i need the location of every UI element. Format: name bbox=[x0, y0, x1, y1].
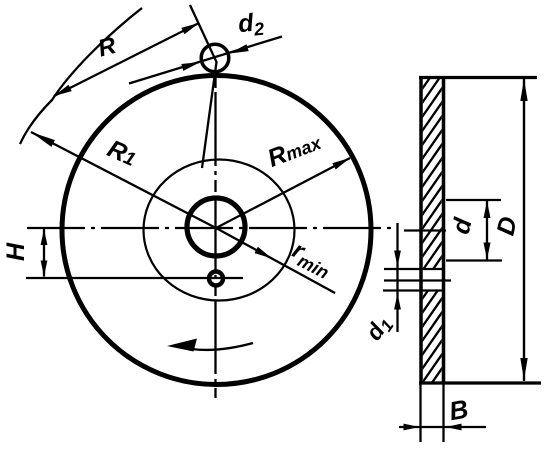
d1 dimension line bbox=[396, 223, 398, 332]
section bar right edge bbox=[442, 77, 446, 384]
R1 dimension line bbox=[31, 132, 216, 228]
section bottom edge / D bottom extension bbox=[419, 381, 541, 384]
roller circle bbox=[201, 44, 229, 72]
pin hole section line bottom bbox=[383, 289, 445, 291]
d dimension line bbox=[486, 200, 488, 261]
d2 dimension axis line bbox=[129, 37, 282, 84]
roller normal line bbox=[190, 5, 217, 168]
pin hole section centerline bbox=[384, 279, 451, 281]
section top edge / D top extension bbox=[419, 76, 537, 79]
D dimension line bbox=[523, 78, 525, 381]
disc outer circle bbox=[62, 76, 371, 385]
pin hole bbox=[209, 272, 223, 286]
rotation direction arrow bbox=[192, 343, 253, 350]
H dimension line bbox=[43, 229, 45, 277]
B extension left bbox=[419, 384, 421, 442]
svg-text:H: H bbox=[2, 242, 30, 261]
rmin dimension line bbox=[216, 228, 335, 293]
roller path arc bbox=[20, 8, 142, 144]
centerline stub at section bbox=[404, 229, 446, 231]
d2 right arrow bbox=[230, 44, 249, 53]
B extension right bbox=[442, 384, 444, 442]
d dimension extension top bbox=[446, 199, 501, 201]
R dimension line bbox=[54, 23, 199, 96]
horizontal centerline bbox=[27, 227, 391, 229]
pin hole section line top bbox=[384, 268, 445, 270]
d2 left arrow bbox=[181, 62, 200, 71]
pin hole horizontal line / H extension bbox=[26, 277, 243, 279]
section bar left edge bbox=[419, 77, 423, 384]
d dimension extension bottom bbox=[446, 259, 502, 261]
vertical centerline bbox=[214, 76, 216, 398]
B dimension line bbox=[399, 426, 486, 428]
inner circle bbox=[144, 160, 295, 301]
Rmax dimension line bbox=[216, 158, 350, 228]
hub bore bbox=[187, 198, 245, 256]
